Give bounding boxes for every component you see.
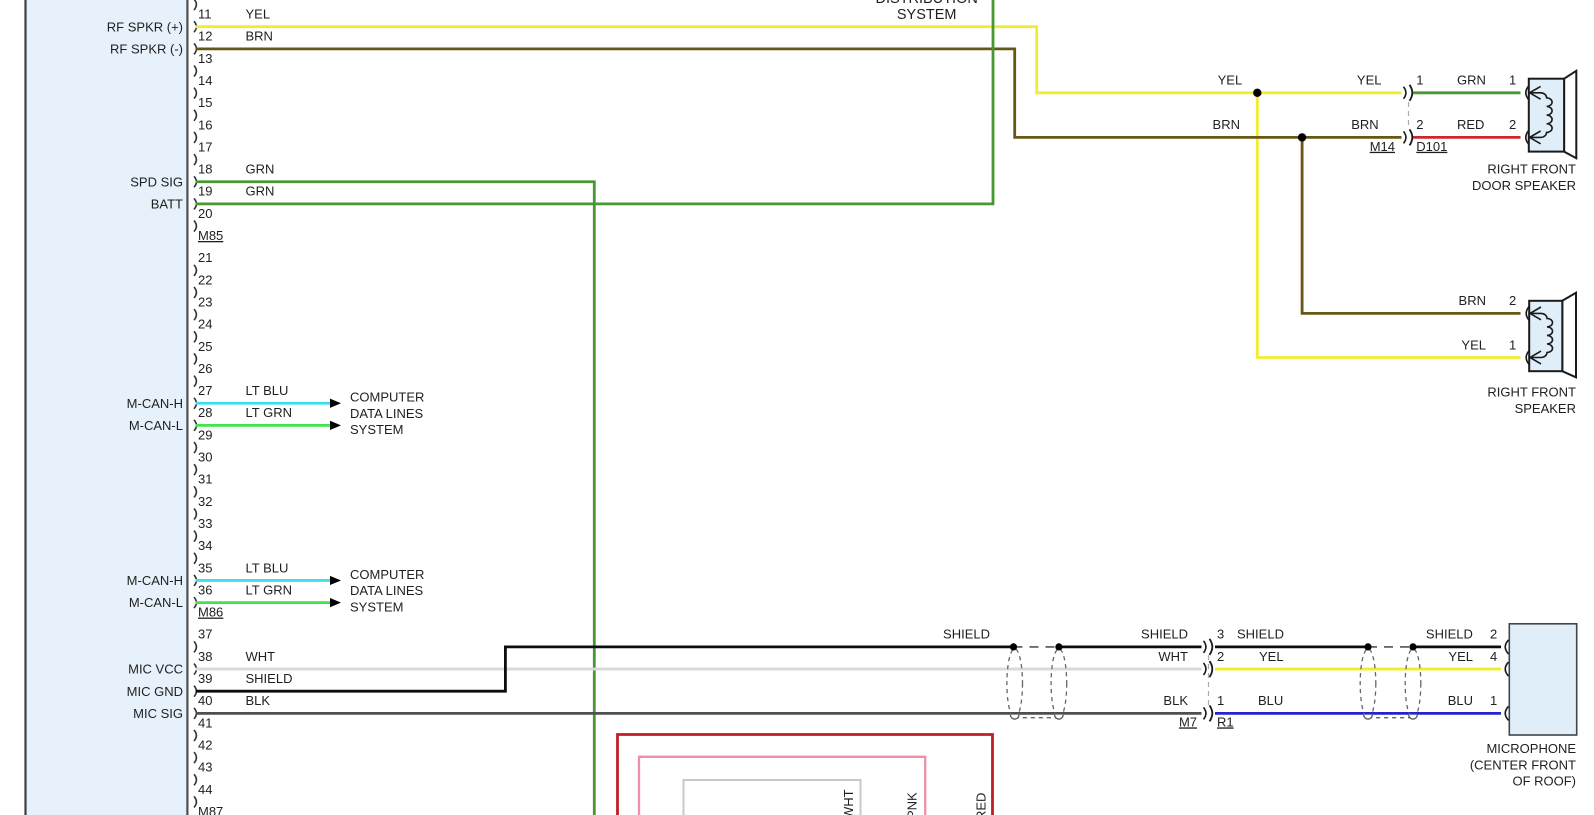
svg-text:1: 1	[1217, 693, 1224, 708]
right front speaker voice coil and arrows	[1530, 313, 1553, 357]
svg-text:36: 36	[198, 582, 212, 597]
pin 37 connector arc	[194, 641, 196, 652]
svg-text:DATA LINES: DATA LINES	[350, 406, 424, 421]
svg-text:19: 19	[198, 184, 212, 199]
wire BRN from pin 12 RF SPKR (-)	[196, 49, 1402, 138]
pin 29 connector arc	[194, 442, 196, 453]
right front door speaker voice coil and arrows	[1530, 93, 1553, 138]
pin 24 connector arc	[194, 331, 196, 342]
wire BRN branch down to right front speaker	[1302, 137, 1520, 313]
svg-text:42: 42	[198, 737, 212, 752]
microphone pin 1 arc	[1505, 706, 1508, 720]
svg-text:MIC GND: MIC GND	[127, 684, 183, 699]
arrow to computer data lines (pin 36)	[330, 598, 341, 607]
svg-text:RF SPKR (-): RF SPKR (-)	[110, 41, 183, 56]
svg-text:RED: RED	[974, 793, 989, 815]
svg-text:M-CAN-L: M-CAN-L	[129, 595, 183, 610]
pin 28 connector arc	[194, 420, 196, 431]
panel left border	[24, 0, 26, 815]
svg-text:DISTRIBUTION: DISTRIBUTION	[876, 0, 978, 7]
svg-text:WHT: WHT	[246, 649, 276, 664]
pin 34 connector arc	[194, 553, 196, 564]
pin 23 connector arc	[194, 309, 196, 320]
svg-text:43: 43	[198, 760, 212, 775]
svg-text:(CENTER FRONT: (CENTER FRONT	[1470, 757, 1576, 772]
wire GRN from pin 18 SPD SIG down off page	[196, 182, 595, 815]
wire GRN to door speaker	[1413, 91, 1521, 94]
pin 42 connector arc	[194, 752, 196, 763]
svg-text:BRN: BRN	[1213, 117, 1240, 132]
svg-text:21: 21	[198, 250, 212, 265]
svg-text:28: 28	[198, 405, 212, 420]
svg-text:YEL: YEL	[1448, 649, 1473, 664]
svg-text:LT GRN: LT GRN	[246, 405, 292, 420]
svg-text:GRN: GRN	[246, 184, 275, 199]
connector M14/D101 boundary dashes	[1408, 102, 1410, 126]
svg-text:41: 41	[198, 715, 212, 730]
svg-text:30: 30	[198, 450, 212, 465]
wire WHT loop (bottom)	[684, 780, 861, 815]
svg-text:LT BLU: LT BLU	[246, 383, 289, 398]
pin 18 connector arc	[194, 176, 196, 187]
svg-text:4: 4	[1490, 649, 1497, 664]
pin 14 connector arc	[194, 88, 196, 99]
svg-text:BRN: BRN	[1459, 293, 1486, 308]
svg-text:1: 1	[1416, 73, 1423, 88]
svg-text:15: 15	[198, 95, 212, 110]
shield hop over BLK wire at x=1058.9	[1055, 715, 1064, 719]
svg-text:38: 38	[198, 649, 212, 664]
svg-text:M86: M86	[198, 605, 223, 620]
svg-text:GRN: GRN	[246, 162, 275, 177]
pin 12 connector arc	[194, 43, 196, 54]
arrow to computer data lines (pin 35)	[330, 576, 341, 585]
wire BLK pin 40 MIC SIG	[196, 712, 1202, 715]
svg-text:25: 25	[198, 339, 212, 354]
svg-text:2: 2	[1490, 627, 1497, 642]
junction dot shield 1b	[1055, 643, 1062, 650]
svg-text:2: 2	[1217, 649, 1224, 664]
svg-text:17: 17	[198, 139, 212, 154]
pin 26 connector arc	[194, 376, 196, 387]
svg-text:SHIELD: SHIELD	[1141, 627, 1188, 642]
shield ellipse at x=1413	[1405, 649, 1421, 719]
svg-text:YEL: YEL	[246, 7, 271, 22]
svg-text:YEL: YEL	[1461, 337, 1486, 352]
panel right border	[186, 0, 188, 815]
svg-text:SPEAKER: SPEAKER	[1515, 401, 1576, 416]
svg-text:1: 1	[1509, 73, 1516, 88]
pin 22 connector arc	[194, 287, 196, 298]
svg-text:13: 13	[198, 51, 212, 66]
right front speaker body	[1529, 301, 1562, 371]
svg-text:SHIELD: SHIELD	[1426, 627, 1473, 642]
svg-text:WHT: WHT	[841, 789, 856, 815]
right front speaker terminal arcs	[1526, 306, 1529, 320]
svg-text:RIGHT FRONT: RIGHT FRONT	[1487, 385, 1576, 400]
wire YEL from pin 11 RF SPKR (+)	[196, 27, 1402, 93]
wire BLU from R1 to microphone	[1215, 712, 1501, 715]
wire RED to door speaker	[1413, 136, 1521, 139]
svg-text:M-CAN-L: M-CAN-L	[129, 418, 183, 433]
svg-text:BATT: BATT	[151, 197, 183, 212]
junction dot BRN	[1298, 133, 1306, 141]
wire LT BLU pin 35 M-CAN-H	[196, 579, 331, 582]
svg-text:24: 24	[198, 317, 212, 332]
svg-text:M7: M7	[1179, 714, 1197, 729]
connector M7/R1 pin 3 arcs	[1204, 641, 1206, 653]
svg-text:YEL: YEL	[1218, 73, 1243, 88]
wire YEL from R1 to microphone	[1215, 668, 1501, 671]
svg-text:OF ROOF): OF ROOF)	[1512, 774, 1576, 789]
svg-text:2: 2	[1509, 293, 1516, 308]
pin 44 connector arc	[194, 796, 196, 807]
junction dot shield 2a	[1364, 643, 1371, 650]
wire PNK loop (bottom)	[639, 757, 925, 815]
svg-text:SYSTEM: SYSTEM	[350, 422, 403, 437]
svg-text:12: 12	[198, 29, 212, 44]
pin 25 connector arc	[194, 353, 196, 364]
svg-text:DATA LINES: DATA LINES	[350, 583, 424, 598]
svg-text:1: 1	[1490, 693, 1497, 708]
svg-text:SHIELD: SHIELD	[246, 671, 293, 686]
pin 15 connector arc	[194, 110, 196, 121]
connector M7/R1 boundary dashes	[1208, 655, 1210, 705]
wire SHIELD from R1 to microphone	[1215, 646, 1368, 649]
svg-text:SPD SIG: SPD SIG	[130, 174, 183, 189]
pin 27 connector arc	[194, 398, 196, 409]
svg-text:32: 32	[198, 494, 212, 509]
svg-text:26: 26	[198, 361, 212, 376]
svg-text:M14: M14	[1370, 139, 1395, 154]
right front door speaker cone	[1564, 71, 1576, 158]
svg-text:LT GRN: LT GRN	[246, 582, 292, 597]
svg-text:SYSTEM: SYSTEM	[897, 7, 957, 23]
wire SHIELD continues to connector	[1059, 646, 1202, 649]
microphone box	[1509, 624, 1576, 735]
pin 43 connector arc	[194, 774, 196, 785]
junction dot shield 1a	[1010, 643, 1017, 650]
svg-text:R1: R1	[1217, 714, 1234, 729]
pin 10 connector arc	[194, 0, 196, 10]
wire WHT pin 38 MIC VCC	[196, 668, 1202, 671]
svg-text:SHIELD: SHIELD	[1237, 627, 1284, 642]
pin 30 connector arc	[194, 464, 196, 475]
svg-text:RF SPKR (+): RF SPKR (+)	[107, 19, 183, 34]
shield bottom dashed link 2	[1368, 717, 1413, 719]
svg-text:M85: M85	[198, 228, 223, 243]
shield dashed gap 1	[1014, 646, 1060, 648]
pin 21 connector arc	[194, 265, 196, 276]
right front door speaker body	[1529, 79, 1564, 152]
svg-text:SHIELD: SHIELD	[943, 627, 990, 642]
svg-text:33: 33	[198, 516, 212, 531]
pin 31 connector arc	[194, 486, 196, 497]
svg-text:M-CAN-H: M-CAN-H	[127, 573, 183, 588]
svg-text:MIC SIG: MIC SIG	[133, 706, 183, 721]
wire GRN from pin 19 BATT up to distribution system	[196, 0, 994, 204]
svg-text:2: 2	[1509, 117, 1516, 132]
microphone pin 2 arc	[1505, 640, 1508, 654]
svg-text:20: 20	[198, 206, 212, 221]
pin 38 connector arc	[194, 664, 196, 675]
shield hop over BLU wire at x=1368	[1364, 715, 1373, 719]
wire YEL branch down to right front speaker	[1257, 93, 1520, 358]
pin 41 connector arc	[194, 730, 196, 741]
svg-text:34: 34	[198, 538, 212, 553]
svg-text:DOOR SPEAKER: DOOR SPEAKER	[1472, 178, 1576, 193]
svg-text:BLK: BLK	[246, 693, 271, 708]
svg-text:RIGHT FRONT: RIGHT FRONT	[1487, 162, 1576, 177]
pin 17 connector arc	[194, 154, 196, 165]
svg-text:SYSTEM: SYSTEM	[350, 600, 403, 615]
pin 32 connector arc	[194, 509, 196, 520]
right front speaker cone	[1562, 293, 1576, 378]
pin 33 connector arc	[194, 531, 196, 542]
connector M14/D101 pin 1 arcs	[1404, 87, 1406, 99]
svg-text:35: 35	[198, 560, 212, 575]
svg-text:BLK: BLK	[1163, 693, 1188, 708]
svg-text:M-CAN-H: M-CAN-H	[127, 396, 183, 411]
connector M7/R1 pin 1 arcs	[1204, 707, 1206, 719]
svg-text:BRN: BRN	[246, 29, 273, 44]
svg-text:37: 37	[198, 627, 212, 642]
svg-text:1: 1	[1509, 337, 1516, 352]
svg-text:40: 40	[198, 693, 212, 708]
microphone pin 4 arc	[1505, 662, 1508, 676]
shield hop over BLU wire at x=1413	[1409, 715, 1418, 719]
pin 11 connector arc	[194, 21, 196, 32]
shield ellipse at x=1058.9	[1051, 649, 1067, 719]
svg-text:3: 3	[1217, 627, 1224, 642]
svg-text:RED: RED	[1457, 117, 1484, 132]
svg-text:BLU: BLU	[1448, 693, 1473, 708]
svg-text:31: 31	[198, 472, 212, 487]
wire RED loop (bottom)	[618, 735, 993, 815]
pin 13 connector arc	[194, 66, 196, 77]
pin 19 connector arc	[194, 198, 196, 209]
svg-text:YEL: YEL	[1259, 649, 1284, 664]
wire SHIELD pin 39 MIC GND	[196, 647, 1014, 691]
svg-text:MIC VCC: MIC VCC	[128, 662, 183, 677]
wire LT BLU pin 27 M-CAN-H	[196, 402, 331, 405]
svg-text:MICROPHONE: MICROPHONE	[1486, 741, 1576, 756]
shield hop over BLK wire at x=1014.7	[1010, 715, 1019, 719]
svg-text:18: 18	[198, 162, 212, 177]
svg-text:WHT: WHT	[1158, 649, 1188, 664]
connector M14/D101 pin 2 arcs	[1404, 131, 1406, 143]
svg-text:COMPUTER: COMPUTER	[350, 567, 424, 582]
svg-text:D101: D101	[1416, 139, 1447, 154]
pin 39 connector arc	[194, 686, 196, 697]
svg-text:16: 16	[198, 117, 212, 132]
pin 40 connector arc	[194, 708, 196, 719]
svg-text:BRN: BRN	[1351, 117, 1378, 132]
svg-text:2: 2	[1416, 117, 1423, 132]
shield bottom dashed link 1	[1015, 717, 1059, 719]
right front door speaker terminal arcs	[1526, 86, 1529, 100]
pin 20 connector arc	[194, 221, 196, 232]
svg-text:14: 14	[198, 73, 212, 88]
arrow to computer data lines (pin 27)	[330, 399, 341, 408]
svg-text:23: 23	[198, 294, 212, 309]
svg-text:COMPUTER: COMPUTER	[350, 390, 424, 405]
svg-text:22: 22	[198, 272, 212, 287]
wire LT GRN pin 36 M-CAN-L	[196, 601, 331, 604]
pin 36 connector arc	[194, 597, 196, 608]
shield dashed gap 2	[1368, 646, 1413, 648]
shield ellipse at x=1014.7	[1007, 649, 1023, 719]
svg-text:29: 29	[198, 427, 212, 442]
svg-text:LT BLU: LT BLU	[246, 560, 289, 575]
connector panel M85/M86/M87 (left)	[27, 0, 187, 815]
pin 35 connector arc	[194, 575, 196, 586]
svg-text:PNK: PNK	[905, 792, 920, 815]
shield ellipse at x=1368	[1360, 649, 1376, 719]
svg-text:11: 11	[198, 7, 212, 22]
connector M7/R1 pin 2 arcs	[1204, 663, 1206, 675]
svg-text:GRN: GRN	[1457, 73, 1486, 88]
junction dot shield 2b	[1409, 643, 1416, 650]
svg-text:BLU: BLU	[1258, 693, 1283, 708]
svg-text:27: 27	[198, 383, 212, 398]
svg-text:39: 39	[198, 671, 212, 686]
svg-text:YEL: YEL	[1357, 73, 1382, 88]
svg-text:44: 44	[198, 782, 212, 797]
arrow to computer data lines (pin 28)	[330, 421, 341, 430]
wire LT GRN pin 28 M-CAN-L	[196, 424, 331, 427]
pin 16 connector arc	[194, 132, 196, 143]
svg-text:M87: M87	[198, 804, 223, 815]
junction dot YEL	[1253, 89, 1261, 97]
